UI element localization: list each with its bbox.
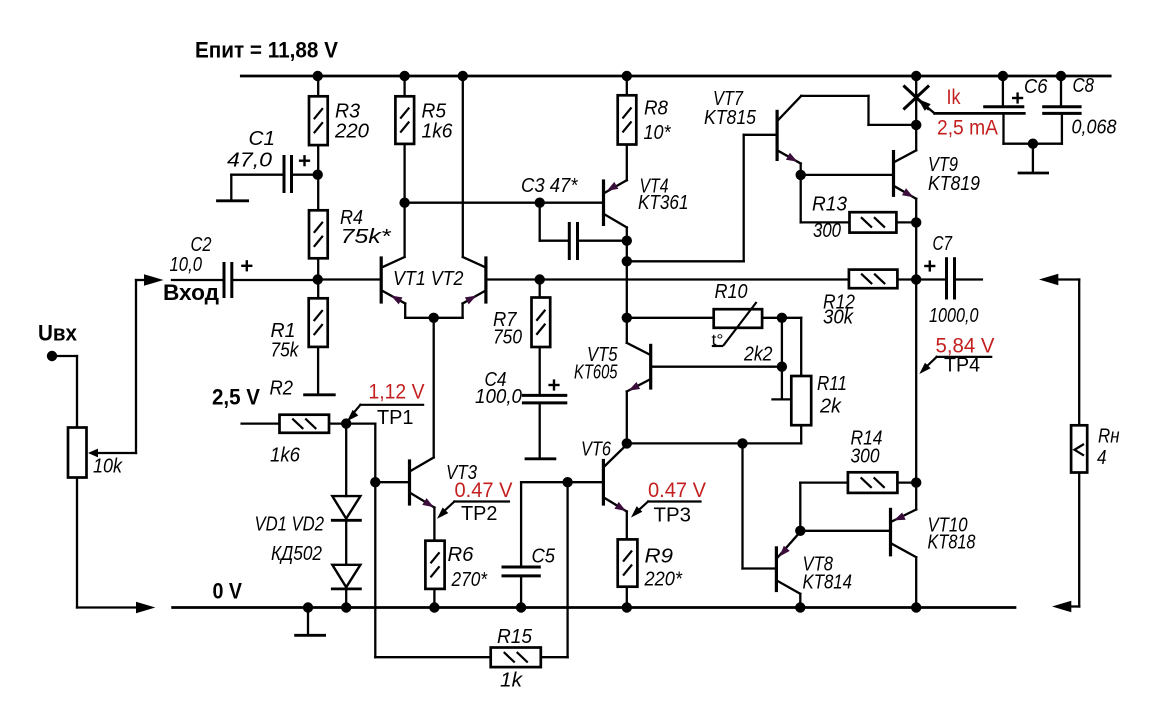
svg-text:КД502: КД502 (271, 542, 322, 565)
svg-text:Ik: Ik (947, 86, 961, 109)
svg-text:C8: C8 (1073, 74, 1095, 97)
svg-text:10k: 10k (93, 455, 124, 478)
svg-text:1000,0: 1000,0 (929, 304, 979, 327)
svg-text:VD1 VD2: VD1 VD2 (255, 513, 325, 536)
svg-text:R2: R2 (270, 377, 294, 400)
svg-text:0.47 V: 0.47 V (455, 479, 513, 502)
svg-text:75k: 75k (271, 339, 300, 362)
svg-text:750: 750 (493, 326, 522, 349)
svg-text:C6: C6 (1024, 75, 1048, 98)
svg-text:0,068: 0,068 (1072, 115, 1118, 138)
svg-text:ТР2: ТР2 (461, 503, 498, 525)
svg-text:ТР3: ТР3 (654, 504, 692, 526)
svg-text:KT818: KT818 (928, 531, 976, 554)
svg-text:270*: 270* (451, 568, 488, 591)
svg-text:C7: C7 (933, 232, 954, 255)
svg-text:KT605: KT605 (574, 361, 618, 384)
svg-text:100,0: 100,0 (475, 385, 523, 408)
svg-text:Вход: Вход (163, 280, 219, 305)
svg-text:KT361: KT361 (638, 191, 689, 214)
svg-text:1k: 1k (500, 669, 524, 692)
svg-text:2k2: 2k2 (743, 343, 773, 366)
svg-text:ТР4: ТР4 (944, 354, 980, 376)
svg-text:C1: C1 (249, 127, 276, 150)
svg-text:30k: 30k (823, 306, 855, 329)
svg-text:KT815: KT815 (704, 106, 757, 129)
svg-text:R6: R6 (448, 543, 475, 566)
svg-text:2,5 mA: 2,5 mA (937, 117, 998, 140)
svg-text:R15: R15 (497, 625, 533, 648)
svg-text:KT819: KT819 (928, 172, 980, 195)
svg-text:R11: R11 (817, 372, 847, 395)
svg-text:2,5 V: 2,5 V (212, 385, 260, 410)
svg-text:75k*: 75k* (341, 225, 392, 248)
svg-text:VT6: VT6 (581, 438, 611, 461)
svg-text:VT1 VT2: VT1 VT2 (393, 267, 464, 290)
svg-text:Uвх: Uвх (38, 321, 78, 346)
svg-text:1k6: 1k6 (270, 444, 301, 467)
svg-text:220*: 220* (644, 568, 683, 591)
svg-text:C5: C5 (532, 545, 556, 568)
svg-text:R13: R13 (812, 193, 848, 216)
svg-text:KT814: KT814 (803, 571, 853, 594)
svg-text:R8: R8 (644, 97, 669, 120)
svg-text:C3 47*: C3 47* (521, 174, 578, 197)
svg-text:ТР1: ТР1 (377, 407, 414, 429)
svg-text:220: 220 (334, 120, 370, 143)
svg-text:10*: 10* (644, 121, 672, 144)
svg-text:300: 300 (851, 445, 880, 468)
svg-text:1k6: 1k6 (422, 120, 454, 143)
svg-text:Епит = 11,88 V: Епит = 11,88 V (195, 38, 338, 63)
svg-text:0.47 V: 0.47 V (648, 479, 706, 502)
svg-text:2k: 2k (819, 395, 843, 418)
svg-text:1,12 V: 1,12 V (369, 381, 425, 404)
svg-text:10,0: 10,0 (170, 253, 203, 276)
svg-text:t°: t° (712, 332, 724, 349)
svg-text:Rн: Rн (1098, 425, 1120, 448)
svg-text:0 V: 0 V (213, 579, 243, 604)
svg-text:R9: R9 (645, 545, 674, 568)
svg-text:300: 300 (813, 219, 841, 242)
svg-text:R10: R10 (715, 280, 749, 303)
svg-text:4: 4 (1097, 446, 1107, 469)
svg-text:47,0: 47,0 (227, 149, 273, 172)
